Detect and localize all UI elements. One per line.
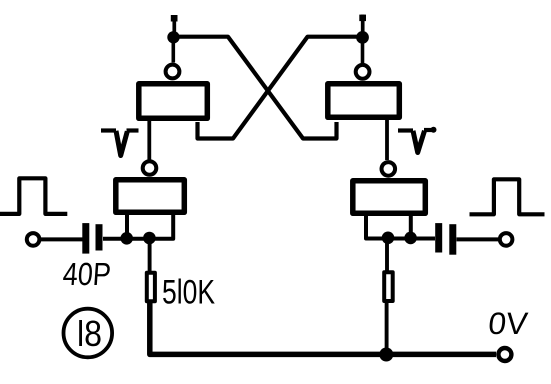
- svg-text:0V: 0V: [487, 306, 530, 341]
- svg-text:l8: l8: [77, 313, 102, 354]
- svg-text:40P: 40P: [62, 256, 113, 292]
- svg-text:5l0K: 5l0K: [162, 273, 215, 311]
